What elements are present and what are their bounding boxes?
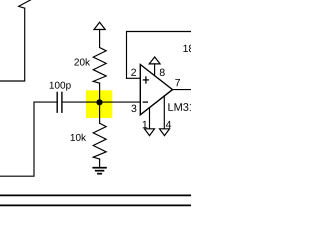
pin label 3 <box>131 105 136 112</box>
wire <box>0 102 57 176</box>
capacitor C1 plate 1 <box>56 92 58 112</box>
resistor R 20k <box>93 48 106 84</box>
feedback wire to pin 2 <box>127 32 193 79</box>
resistor R 10k <box>93 123 106 159</box>
wire <box>99 159 101 167</box>
value label 10k <box>71 134 86 141</box>
value label 100p <box>50 82 71 91</box>
wire <box>63 101 141 103</box>
supply arrow (top of R 20k) <box>94 22 105 29</box>
op-amp U1 LM311 triangle <box>140 65 172 115</box>
op-amp minus mark <box>143 101 148 103</box>
value label 20k <box>74 58 90 65</box>
wire <box>99 83 101 102</box>
pin 7 output wire <box>173 89 193 91</box>
capacitor C1 plate 2 <box>61 92 63 112</box>
resistor (partial, cut off at top-left edge) <box>19 0 32 8</box>
pin 4 ground arrow <box>160 129 170 136</box>
frame border line 2 <box>0 204 191 206</box>
pin 1 ground arrow <box>145 129 155 136</box>
frame border line 1 <box>0 194 191 196</box>
wire <box>99 102 101 123</box>
pin 8 supply arrow <box>149 57 160 64</box>
pin label 7 <box>175 79 180 86</box>
pin label 2 <box>131 69 136 76</box>
value label 180k (clipped at right edge) <box>183 44 205 52</box>
ground <box>92 168 106 174</box>
node N$1 highlight (selected net, yellow) <box>86 90 112 118</box>
pin label 1 <box>143 121 148 128</box>
wire <box>0 8 25 81</box>
part label LM311 (clipped at right edge) <box>168 103 200 111</box>
op-amp plus mark <box>143 76 149 83</box>
node junction dot <box>96 99 102 105</box>
pin label 4 <box>166 121 171 128</box>
pin 8 wire <box>154 64 156 76</box>
pin 1 wire <box>149 108 151 129</box>
pin label 8 <box>160 69 165 76</box>
pin 2 wire <box>127 77 141 79</box>
pin 4 wire <box>163 96 165 129</box>
wire <box>99 30 101 48</box>
